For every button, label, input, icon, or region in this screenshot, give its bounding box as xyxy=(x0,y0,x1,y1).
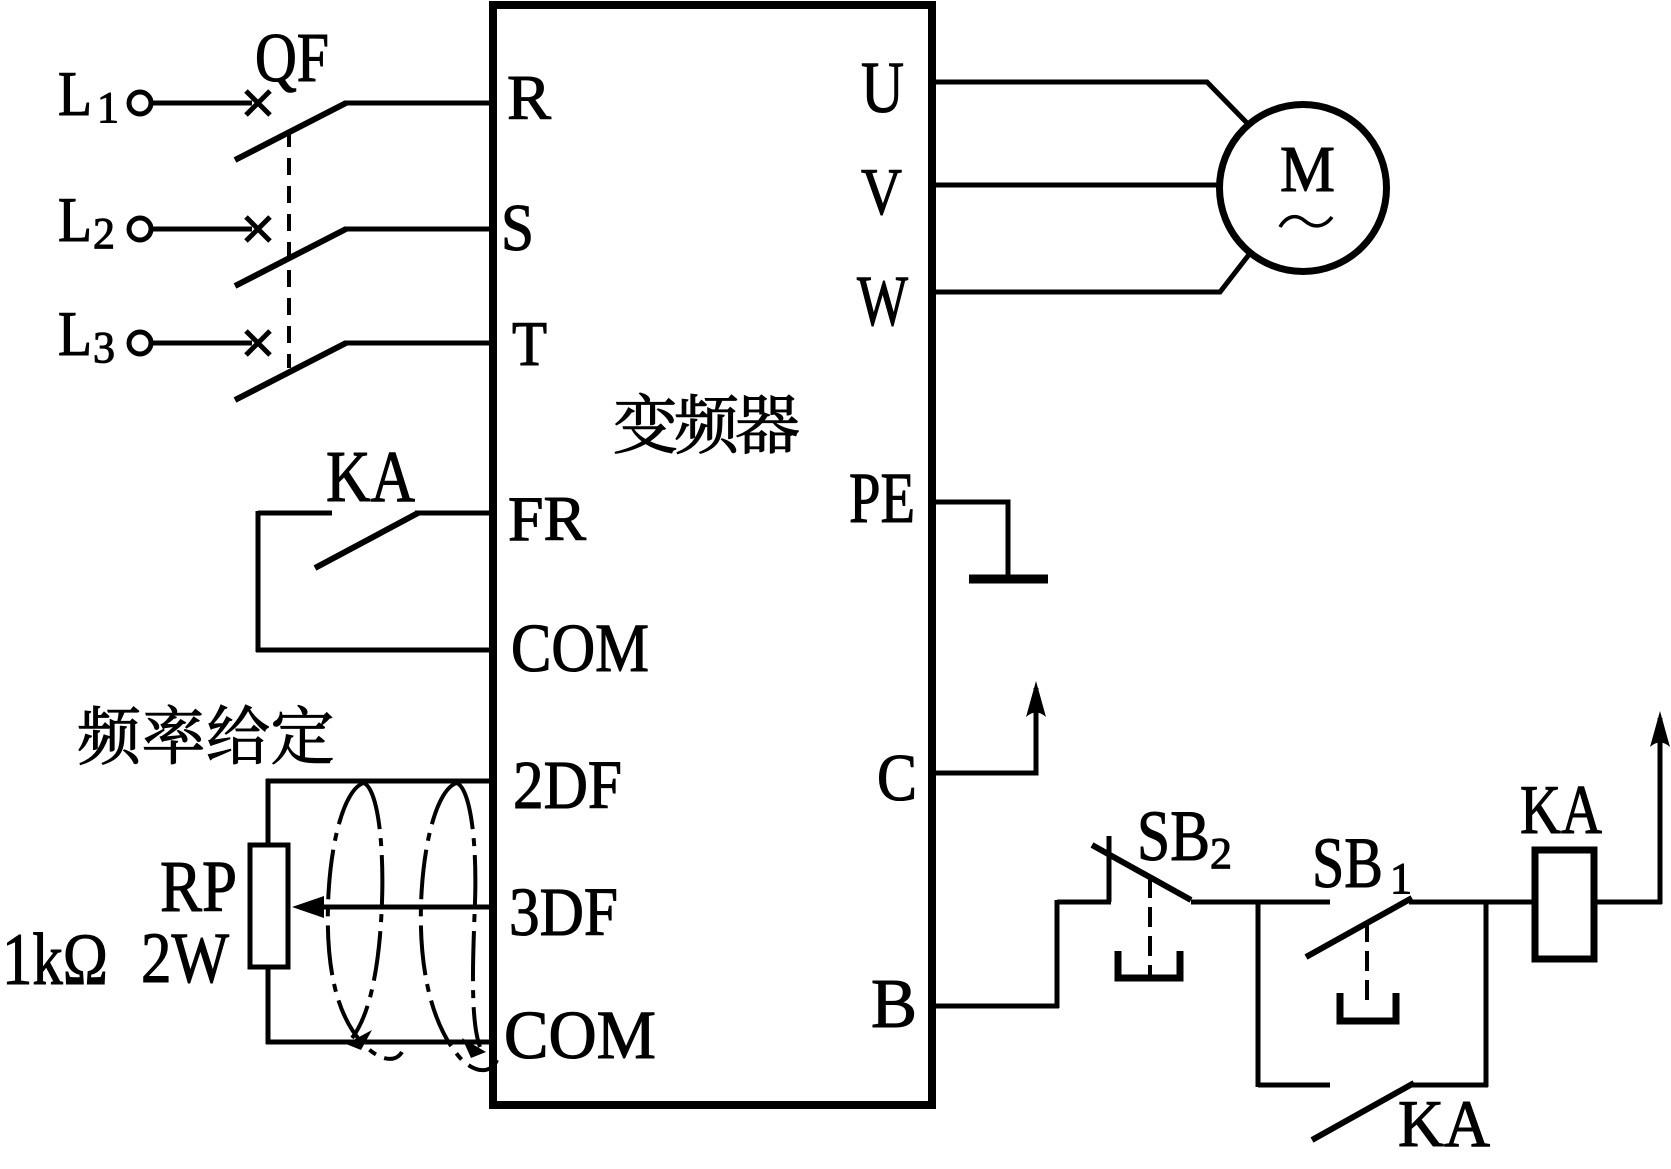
terminal L1 circle xyxy=(129,92,151,114)
relay coil KA xyxy=(1535,850,1594,959)
svg-text:KA: KA xyxy=(1398,1087,1490,1161)
self-hold contact KA blade xyxy=(1312,1083,1414,1140)
svg-text:KA: KA xyxy=(1520,772,1602,849)
svg-text:V: V xyxy=(861,155,902,229)
inverter title 变频器 xyxy=(615,393,798,454)
wire KA contact right xyxy=(1412,1083,1488,1088)
wire C xyxy=(930,688,1036,773)
wire KA to FR xyxy=(415,511,494,516)
SB1 blade xyxy=(1306,898,1412,957)
terminal L3 label xyxy=(58,298,115,372)
wire phase 2 to inverter xyxy=(344,227,494,232)
wire V to motor xyxy=(930,183,1219,188)
motor M circle xyxy=(1220,105,1387,272)
QF contact cross phase 1 xyxy=(246,91,270,115)
wire 3DF wiper xyxy=(318,905,494,910)
shield loop 1 right side xyxy=(352,783,382,1038)
wire junction down right xyxy=(1484,902,1489,1087)
wire RP top vertical xyxy=(266,779,271,847)
wire B to SB2 xyxy=(1057,900,1111,905)
svg-text:U: U xyxy=(861,47,904,128)
potentiometer RP body xyxy=(250,845,288,967)
terminal L1 label xyxy=(58,58,119,132)
terminal L2 circle xyxy=(129,218,151,240)
QF contact cross phase 2 xyxy=(246,217,270,241)
svg-text:C: C xyxy=(877,741,917,815)
shield loop 1 left side xyxy=(328,783,402,1059)
svg-text:2DF: 2DF xyxy=(513,747,622,823)
RP wiper arrow xyxy=(292,896,324,918)
motor AC tilde xyxy=(1280,217,1332,227)
KA fixed contact wire xyxy=(258,511,332,516)
SB2 linkage dashed xyxy=(1148,878,1152,976)
svg-text:KA: KA xyxy=(326,436,415,517)
wire to COM xyxy=(256,648,494,653)
svg-text:SB: SB xyxy=(1312,823,1383,903)
terminal L2 label xyxy=(58,184,115,258)
svg-text:2W: 2W xyxy=(141,918,229,998)
shield loop 2 left side xyxy=(421,783,497,1070)
svg-text:1: 1 xyxy=(97,83,119,132)
wire PE xyxy=(930,502,1008,575)
svg-text:SB: SB xyxy=(1137,796,1210,876)
ground xyxy=(969,575,1048,584)
label 频率给定 (frequency setting) xyxy=(79,705,332,765)
svg-text:1: 1 xyxy=(1390,854,1412,903)
svg-text:R: R xyxy=(507,62,551,133)
SB2 fixed contact xyxy=(1107,836,1112,902)
SB2 blade xyxy=(1092,845,1191,900)
svg-text:PE: PE xyxy=(849,458,915,538)
wire phase 3 to inverter xyxy=(344,341,494,346)
wire SB1 to KA coil xyxy=(1409,900,1534,905)
arrow C xyxy=(1026,681,1046,717)
wire L1 to QF xyxy=(152,101,252,106)
wire RP bottom vertical xyxy=(266,965,271,1044)
svg-text:L: L xyxy=(58,298,92,369)
shield loop 1 arrowhead xyxy=(346,1030,372,1050)
svg-text:QF: QF xyxy=(255,20,329,97)
pushbutton SB1 label xyxy=(1312,823,1412,903)
svg-text:2: 2 xyxy=(93,209,115,258)
svg-text:M: M xyxy=(1280,133,1335,206)
QF contact cross phase 3 xyxy=(246,331,270,355)
wire KA contact left xyxy=(1258,1083,1330,1088)
SB1 linkage dashed xyxy=(1365,922,1369,1005)
svg-text:L: L xyxy=(58,58,92,129)
QF blade phase 3 xyxy=(235,343,346,400)
svg-text:FR: FR xyxy=(508,483,586,554)
wire SB2 to SB1 xyxy=(1191,900,1330,905)
wire phase 1 to inverter xyxy=(344,101,494,106)
svg-text:1kΩ: 1kΩ xyxy=(2,919,108,1001)
wire U to motor xyxy=(930,82,1248,124)
wire coil up xyxy=(1658,718,1663,904)
wire B xyxy=(930,1004,1059,1009)
svg-text:S: S xyxy=(501,191,534,265)
SB2 button actuator xyxy=(1118,951,1180,978)
KA contact blade xyxy=(315,513,418,568)
shield loop 2 right side xyxy=(457,783,480,1047)
svg-text:L: L xyxy=(58,184,92,255)
wire L2 to QF xyxy=(152,227,252,232)
svg-text:COM: COM xyxy=(511,610,649,686)
inverter box 变频器 xyxy=(493,5,932,1105)
QF blade phase 1 xyxy=(235,103,346,160)
wire L3 to QF xyxy=(152,341,252,346)
shield loop 2 arrowhead xyxy=(462,1038,486,1058)
QF blade phase 2 xyxy=(235,229,346,286)
terminal L3 circle xyxy=(129,332,151,354)
svg-text:W: W xyxy=(857,261,908,341)
wire 2DF xyxy=(266,779,494,784)
pushbutton SB2 label xyxy=(1137,796,1232,878)
svg-text:T: T xyxy=(512,308,547,379)
svg-text:3: 3 xyxy=(93,323,115,372)
wire coil right xyxy=(1595,900,1662,905)
svg-text:3DF: 3DF xyxy=(509,874,618,950)
svg-text:RP: RP xyxy=(160,846,237,927)
wire junction down left xyxy=(1256,902,1261,1087)
wire KA left vertical xyxy=(256,511,261,652)
QF linkage dashed line xyxy=(287,130,291,368)
wire COM2 xyxy=(266,1040,494,1045)
wire B up xyxy=(1055,900,1060,1008)
svg-text:COM: COM xyxy=(504,997,656,1073)
svg-text:B: B xyxy=(871,966,917,1043)
svg-text:2: 2 xyxy=(1210,829,1232,878)
arrow coil output xyxy=(1650,711,1670,747)
wire W to motor xyxy=(930,252,1251,292)
SB1 button actuator xyxy=(1340,993,1396,1021)
